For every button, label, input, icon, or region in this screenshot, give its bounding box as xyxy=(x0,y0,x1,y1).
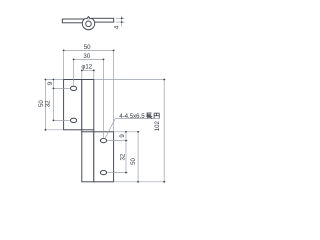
slot hole bottom plate 2 xyxy=(100,170,106,174)
dimension 4: dimension line xyxy=(121,16,123,27)
front view: top plate xyxy=(64,80,82,130)
svg-text:50: 50 xyxy=(130,158,137,165)
dimension 50 top: extension lines xyxy=(63,51,65,79)
front view: top leaf curl edge across barrel xyxy=(82,129,94,131)
dimension 50 top: dimension line xyxy=(64,49,114,51)
svg-text:9: 9 xyxy=(119,134,126,138)
right extension lines xyxy=(94,79,165,81)
slot label leader line xyxy=(105,119,159,138)
dimension 9 right chain line xyxy=(125,132,127,173)
svg-text:32: 32 xyxy=(120,153,127,160)
left extension lines xyxy=(45,79,64,81)
svg-text:32: 32 xyxy=(45,100,52,107)
top view: seam notch at barrel top xyxy=(87,17,90,19)
svg-text:50: 50 xyxy=(84,44,91,51)
dimension 50 right: dimension line xyxy=(137,132,139,182)
svg-text:4-4.5x6.5: 4-4.5x6.5 xyxy=(119,113,145,120)
front view: bottom plate xyxy=(94,132,114,182)
dimension 102: dimension line xyxy=(163,80,165,182)
dimension 30: dimension line xyxy=(74,58,104,60)
kanji chouen (oblong) drawn as paths xyxy=(146,113,159,119)
front view: bottom leaf curl edge across barrel xyxy=(81,131,93,133)
svg-text:φ12: φ12 xyxy=(81,64,92,71)
top view: barrel outer circle xyxy=(82,19,94,30)
top view: left leaf bar xyxy=(62,19,86,23)
top view: right leaf bar xyxy=(92,18,114,22)
svg-text:102: 102 xyxy=(154,121,161,132)
svg-text:9: 9 xyxy=(47,81,54,85)
svg-text:30: 30 xyxy=(83,53,90,60)
front view: barrel tube xyxy=(82,80,94,182)
svg-text:4: 4 xyxy=(113,25,120,29)
dimension 30: extension lines xyxy=(73,60,75,86)
top view: pin inner circle xyxy=(86,21,92,27)
slot hole top plate 1 xyxy=(70,86,76,90)
dimension 4: extension lines xyxy=(116,17,125,19)
slot hole bottom plate 1 xyxy=(100,138,106,142)
dimension phi12: dimension line xyxy=(82,69,94,71)
dimension 9 left chain line xyxy=(52,80,54,121)
dimension 50 left: dimension line xyxy=(44,80,46,130)
dimension phi12: extension lines xyxy=(81,71,83,79)
slot hole top plate 2 xyxy=(70,118,76,122)
